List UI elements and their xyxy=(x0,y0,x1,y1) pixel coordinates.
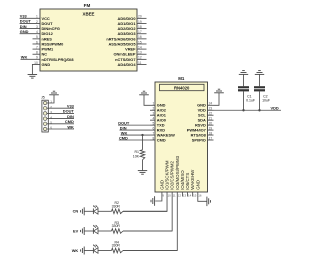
svg-text:6: 6 xyxy=(36,40,38,44)
svg-text:17: 17 xyxy=(209,136,213,140)
svg-text:10: 10 xyxy=(34,61,38,65)
svg-text:16: 16 xyxy=(138,35,142,39)
svg-text:19: 19 xyxy=(209,126,213,130)
svg-text:GND: GND xyxy=(195,180,200,190)
svg-text:23: 23 xyxy=(209,107,213,111)
svg-text:2: 2 xyxy=(36,20,38,24)
svg-text:17: 17 xyxy=(138,30,142,34)
svg-text:10: 10 xyxy=(168,193,172,197)
svg-text:CMD: CMD xyxy=(157,137,166,142)
svg-text:CN: CN xyxy=(73,209,79,214)
svg-text:11: 11 xyxy=(138,61,142,65)
svg-text:330R: 330R xyxy=(112,204,121,208)
svg-text:13: 13 xyxy=(138,51,142,55)
svg-text:330R: 330R xyxy=(112,244,121,248)
svg-text:WK: WK xyxy=(21,55,28,60)
svg-text:20: 20 xyxy=(138,15,142,19)
svg-text:M1: M1 xyxy=(178,76,185,81)
svg-text:4: 4 xyxy=(153,116,155,120)
svg-text:16: 16 xyxy=(198,193,202,197)
svg-text:11: 11 xyxy=(173,193,176,197)
svg-text:7: 7 xyxy=(36,45,38,49)
svg-text:13: 13 xyxy=(183,193,187,197)
svg-text:XBEE: XBEE xyxy=(83,12,95,17)
svg-text:18: 18 xyxy=(209,131,213,135)
svg-text:EV: EV xyxy=(73,228,79,233)
svg-text:9: 9 xyxy=(36,56,38,60)
svg-text:7: 7 xyxy=(153,131,155,135)
svg-text:R1: R1 xyxy=(135,150,140,154)
svg-text:WK: WK xyxy=(72,248,79,253)
svg-text:5: 5 xyxy=(36,35,38,39)
svg-text:12: 12 xyxy=(178,193,182,197)
svg-text:6: 6 xyxy=(153,126,155,130)
svg-text:5: 5 xyxy=(153,121,155,125)
svg-text:0.1uF: 0.1uF xyxy=(246,99,255,103)
svg-text:3: 3 xyxy=(153,112,155,116)
svg-text:18: 18 xyxy=(138,25,142,29)
svg-text:14: 14 xyxy=(138,45,142,49)
svg-text:14: 14 xyxy=(188,193,192,197)
svg-text:10K: 10K xyxy=(133,155,140,159)
svg-text:3: 3 xyxy=(36,25,38,29)
svg-text:WK: WK xyxy=(67,124,74,129)
svg-text:20: 20 xyxy=(209,121,213,125)
svg-text:4: 4 xyxy=(36,30,38,34)
svg-text:SPI/PIO: SPI/PIO xyxy=(192,137,206,142)
svg-text:GND: GND xyxy=(20,29,29,34)
svg-text:AD4/DIO4: AD4/DIO4 xyxy=(118,62,137,67)
svg-text:1: 1 xyxy=(36,15,38,19)
svg-text:8: 8 xyxy=(153,136,155,140)
svg-text:8: 8 xyxy=(36,51,38,55)
svg-text:21: 21 xyxy=(209,116,213,120)
svg-text:VDD: VDD xyxy=(271,105,279,110)
svg-text:15: 15 xyxy=(193,193,197,197)
svg-text:CMD: CMD xyxy=(119,135,128,140)
svg-text:GND: GND xyxy=(42,62,51,67)
svg-text:22: 22 xyxy=(209,112,213,116)
svg-text:330R: 330R xyxy=(112,224,121,228)
svg-text:J5: J5 xyxy=(41,95,45,99)
svg-text:10uF: 10uF xyxy=(262,99,270,103)
svg-text:2: 2 xyxy=(153,107,155,111)
svg-text:RN4020: RN4020 xyxy=(174,85,190,90)
svg-text:24: 24 xyxy=(209,102,213,106)
svg-text:FM: FM xyxy=(84,3,91,8)
svg-text:1: 1 xyxy=(153,102,155,106)
svg-text:12: 12 xyxy=(138,56,142,60)
svg-text:15: 15 xyxy=(138,40,142,44)
svg-text:19: 19 xyxy=(138,20,142,24)
